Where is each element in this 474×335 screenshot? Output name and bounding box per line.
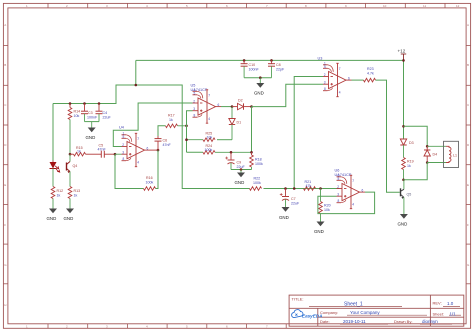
LED D5 emitter: [50, 161, 60, 187]
op-amp U4: [119, 126, 150, 167]
wire U4 output to node: [150, 149, 158, 151]
resistor R14: [68, 104, 80, 155]
svg-text:Your Company: Your Company: [350, 310, 380, 315]
svg-text:TITLE:: TITLE:: [292, 296, 304, 301]
svg-text:2: 2: [337, 185, 339, 189]
svg-text:100k: 100k: [146, 180, 154, 184]
wire +12 riser to D3 column: [403, 60, 405, 139]
svg-text:GND: GND: [398, 222, 408, 227]
capacitor C6: [155, 136, 172, 150]
svg-text:GND: GND: [314, 229, 324, 234]
wire C3/C4 bottoms: [85, 121, 100, 123]
op-amp U5: [191, 84, 222, 124]
node C9 gnd tap: [240, 168, 243, 171]
svg-text:Company:: Company:: [320, 310, 338, 315]
svg-text:diorinyn: diorinyn: [422, 319, 438, 324]
wire top +12 rail: [136, 59, 404, 61]
node R14/R15/Q4 junction: [69, 153, 72, 156]
wire supply drop to mid rail: [53, 60, 136, 103]
resistor R16: [144, 176, 156, 190]
node C9 top: [230, 151, 233, 154]
svg-text:B: B: [467, 63, 469, 67]
resistor R23: [364, 67, 376, 82]
capacitor C8: [268, 60, 285, 77]
node Q5 collector: [402, 179, 405, 182]
svg-text:3: 3: [324, 81, 326, 85]
svg-text:47k: 47k: [306, 184, 312, 188]
svg-text:3: 3: [193, 107, 195, 111]
capacitor C9: [225, 152, 245, 169]
resistor R19: [402, 158, 414, 180]
wire U3 pin2 riser to bottom row: [294, 77, 323, 189]
wire D4 bottom to collector node: [404, 163, 428, 180]
wire R16 feedback loop: [115, 154, 144, 188]
capacitor C5: [98, 144, 116, 158]
resistor R20: [319, 189, 331, 222]
EasyEDA logo: [292, 310, 323, 319]
capacitor C3: [81, 104, 98, 122]
svg-text:4: 4: [137, 161, 139, 165]
svg-text:2: 2: [122, 143, 124, 147]
wire U6 feedback loop output to pin3: [318, 192, 375, 214]
svg-text:11: 11: [423, 4, 426, 8]
inductor L1 relay coil: [427, 141, 458, 167]
wire D4 branch: [404, 126, 428, 146]
svg-text:4: 4: [339, 91, 341, 95]
svg-text:U4: U4: [119, 126, 124, 130]
capacitor C4: [96, 104, 112, 122]
svg-text:A: A: [467, 23, 469, 27]
svg-text:8: 8: [194, 114, 196, 118]
svg-text:H: H: [4, 303, 6, 307]
node D3 branch: [402, 125, 405, 128]
svg-text:D1: D1: [237, 121, 242, 125]
wire U3 output: [352, 79, 364, 81]
svg-text:Q5: Q5: [407, 192, 412, 196]
svg-text:+12: +12: [398, 49, 406, 54]
svg-text:1k: 1k: [169, 118, 173, 122]
wire bottom row R22 to U6: [264, 188, 340, 190]
node D4 top: [426, 145, 429, 148]
node R18 top: [250, 151, 253, 154]
svg-text:5: 5: [324, 65, 326, 69]
resistor R17: [166, 114, 187, 128]
ground under R20: [314, 222, 325, 235]
svg-text:U3: U3: [318, 57, 323, 61]
svg-text:E: E: [467, 183, 469, 187]
node U4 output: [157, 149, 160, 152]
diode D2: [232, 99, 252, 110]
ground under R13: [64, 209, 75, 222]
node C4 tap: [98, 102, 101, 105]
svg-text:22uF: 22uF: [103, 115, 112, 119]
TITLEBLOCK: [289, 295, 464, 326]
svg-text:100nF: 100nF: [87, 115, 98, 119]
wire C6 top to R17: [158, 126, 166, 136]
svg-text:Drawn By:: Drawn By:: [394, 319, 412, 324]
transistor Q4 phototransistor: [67, 154, 78, 186]
svg-text:100k: 100k: [255, 162, 263, 166]
svg-text:A: A: [4, 23, 6, 27]
svg-text:47nF: 47nF: [98, 148, 107, 152]
svg-text:E: E: [4, 183, 6, 187]
svg-text:1/1: 1/1: [450, 312, 457, 317]
svg-text:5: 5: [123, 135, 125, 139]
svg-text:GND: GND: [235, 180, 245, 185]
svg-text:6: 6: [348, 76, 350, 80]
wire left rail down to LED: [52, 104, 54, 161]
svg-text:REV:: REV:: [433, 301, 442, 306]
svg-text:4.7k: 4.7k: [367, 71, 374, 75]
svg-text:100k: 100k: [205, 148, 213, 152]
op-amp U6: [335, 169, 366, 209]
svg-text:2019-10-11: 2019-10-11: [343, 319, 366, 324]
node C3 tap: [83, 102, 86, 105]
node R14 tap: [69, 102, 72, 105]
node R25 riser: [185, 138, 188, 141]
node U3 pin2 riser tap: [293, 187, 296, 190]
wire C10/C8 bottoms: [244, 77, 271, 79]
svg-text:Sheet_1: Sheet_1: [344, 302, 363, 308]
resistor R13: [68, 187, 80, 209]
svg-text:F: F: [467, 223, 469, 227]
wire D1 bottom to R25: [217, 139, 232, 141]
svg-text:7: 7: [352, 179, 354, 183]
svg-text:D3: D3: [409, 141, 414, 145]
svg-text:GND: GND: [64, 216, 74, 221]
svg-text:10k: 10k: [324, 208, 330, 212]
wire R16 right to U4 output node: [156, 150, 159, 188]
svg-text:4: 4: [352, 203, 354, 207]
svg-text:22pF: 22pF: [276, 67, 285, 71]
svg-text:1k: 1k: [77, 150, 81, 154]
ground under C3/C4: [86, 122, 96, 140]
svg-text:22uF: 22uF: [291, 201, 300, 205]
diode D1: [229, 107, 241, 140]
svg-text:L1: L1: [453, 154, 457, 158]
svg-text:8: 8: [324, 87, 326, 91]
diode D4: [424, 146, 437, 162]
wire U5 output: [221, 106, 232, 108]
resistor R21: [304, 180, 316, 190]
resistor R24: [187, 144, 252, 154]
resistor R25: [187, 132, 216, 142]
wire D2 node down to C9 row: [251, 107, 253, 153]
capacitor C10: [241, 60, 260, 77]
wire U5 pin3 riser: [187, 111, 193, 153]
ground under R12: [47, 209, 58, 222]
svg-text:Q4: Q4: [73, 164, 78, 168]
svg-text:6: 6: [218, 103, 220, 107]
junction node dots top rail: [135, 59, 405, 86]
svg-text:4: 4: [208, 117, 210, 121]
svg-text:GND: GND: [279, 215, 289, 220]
svg-text:5: 5: [194, 91, 196, 95]
node U4 pin3 junction: [114, 153, 117, 156]
svg-text:D2: D2: [238, 99, 243, 103]
svg-text:B: B: [4, 63, 6, 67]
transistor Q5: [401, 180, 412, 214]
svg-text:10: 10: [383, 4, 387, 8]
svg-text:10k: 10k: [74, 114, 80, 118]
svg-text:100nF: 100nF: [249, 67, 260, 71]
wire R23 to Q5 base: [376, 80, 400, 192]
resistor R12: [51, 187, 63, 209]
svg-text:6: 6: [362, 188, 364, 192]
svg-text:10k: 10k: [207, 136, 213, 140]
svg-text:8: 8: [338, 199, 340, 203]
svg-text:D4: D4: [433, 153, 438, 157]
node D2 cathode: [250, 105, 253, 108]
diode D3: [400, 139, 413, 158]
wire supply to U5 feed column: [136, 85, 250, 189]
svg-text:Date:: Date:: [320, 319, 330, 324]
svg-text:F: F: [4, 223, 6, 227]
capacitor C7: [280, 189, 300, 208]
svg-text:GND: GND: [86, 135, 96, 140]
svg-text:3: 3: [337, 193, 339, 197]
svg-text:2: 2: [324, 73, 326, 77]
svg-text:GND: GND: [47, 216, 57, 221]
svg-text:Sheet:: Sheet:: [433, 312, 445, 317]
node R17/U5 pin3 riser: [185, 125, 188, 128]
svg-text:7: 7: [339, 67, 341, 71]
ground under C9: [235, 170, 246, 186]
svg-text:2: 2: [193, 99, 195, 103]
ground under Q5: [398, 214, 408, 227]
svg-text:3: 3: [122, 151, 124, 155]
node R21/R20/U6 pin2: [319, 187, 322, 190]
svg-text:1k: 1k: [74, 193, 78, 197]
wire C9/R18 bottoms: [231, 169, 252, 171]
svg-text:GND: GND: [254, 90, 264, 95]
resistor R15: [70, 146, 101, 156]
node U5 output / D1 top: [231, 105, 234, 108]
svg-text:1.0: 1.0: [447, 301, 454, 306]
svg-text:1k: 1k: [57, 193, 61, 197]
node C7 tap: [284, 187, 287, 190]
svg-text:47nF: 47nF: [163, 143, 172, 147]
resistor R22: [250, 177, 262, 191]
node +12 power flag: [398, 49, 407, 61]
svg-text:EasyEDA: EasyEDA: [302, 313, 322, 318]
wire U4 pin2 feed from U5 pin2 row: [113, 103, 192, 147]
svg-text:100k: 100k: [253, 181, 261, 185]
svg-text:6: 6: [147, 146, 149, 150]
ground under C7: [279, 207, 290, 220]
svg-text:1k: 1k: [407, 164, 411, 168]
wire U4 pin3 stub: [115, 153, 122, 155]
svg-text:5: 5: [338, 177, 340, 181]
wire D2 node to U3 pin3: [252, 84, 324, 106]
resistor R18: [250, 152, 263, 169]
node C10/C8 gnd tap: [259, 76, 262, 79]
svg-text:12: 12: [456, 4, 460, 8]
svg-text:22uF: 22uF: [237, 165, 246, 169]
svg-text:8: 8: [123, 157, 125, 161]
svg-text:7: 7: [208, 94, 210, 98]
ground under C10/C8: [254, 78, 264, 96]
node D4 bottom: [426, 161, 429, 164]
svg-text:7: 7: [137, 137, 139, 141]
op-amp U3: [318, 57, 352, 97]
